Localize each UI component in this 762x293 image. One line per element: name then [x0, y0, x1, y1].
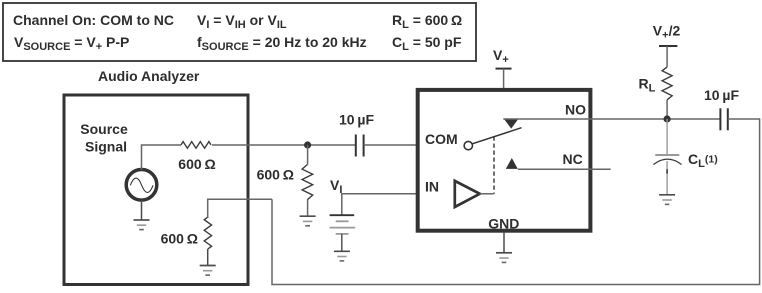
svg-text:IN: IN — [425, 179, 439, 195]
wire NC stub — [518, 168, 611, 170]
wire VI battery to IN — [342, 194, 455, 215]
wire return resistor top — [208, 199, 272, 218]
node junction output — [664, 115, 671, 122]
wire GND stem — [503, 233, 505, 253]
ground under source — [141, 200, 143, 220]
audio analyzer box — [64, 95, 248, 285]
svg-text:Source: Source — [80, 121, 128, 137]
svg-text:10 µF: 10 µF — [704, 87, 739, 103]
capacitor CL — [655, 154, 679, 156]
ground under battery — [334, 251, 350, 261]
svg-text:600 Ω: 600 Ω — [178, 156, 215, 172]
terminal V+/2 — [659, 45, 677, 47]
resistor 600 ohm shunt — [302, 165, 313, 200]
ground under CL — [659, 195, 675, 205]
switch lever — [472, 128, 521, 144]
svg-text:Signal: Signal — [85, 139, 127, 155]
wire CL to ground — [666, 161, 668, 195]
resistor 600 ohm horizontal — [181, 142, 211, 149]
dashed actuation line — [493, 137, 495, 194]
wire source to R 600 — [142, 145, 182, 170]
resistor RL — [662, 67, 672, 100]
contact NO triangle — [504, 119, 518, 129]
svg-text:COM: COM — [425, 131, 458, 147]
contact NC triangle — [506, 158, 518, 169]
wire output return loop — [272, 119, 760, 285]
svg-text:NO: NO — [565, 102, 586, 118]
wire junction down — [307, 145, 309, 165]
svg-text:GND: GND — [488, 216, 519, 232]
ground under IC — [496, 253, 512, 263]
svg-text:10 µF: 10 µF — [339, 111, 374, 127]
capacitor 10uF input — [356, 135, 364, 157]
switch pole circle — [464, 141, 472, 149]
ground under return resistor — [207, 249, 209, 266]
wire cap to COM — [364, 144, 465, 146]
svg-text:600 Ω: 600 Ω — [257, 167, 294, 183]
node junction at divider — [304, 141, 311, 148]
svg-text:Audio Analyzer: Audio Analyzer — [98, 68, 200, 84]
terminal V+ — [496, 68, 512, 70]
wire V+/2 to RL — [666, 46, 668, 67]
wire RL to node — [666, 100, 668, 119]
wire R600 to junction to cap — [212, 144, 355, 146]
battery VI — [330, 215, 356, 251]
wire V+ to box — [503, 69, 505, 88]
capacitor 10uF output — [720, 108, 727, 130]
source V1 sine generator — [126, 170, 157, 201]
wire node to CL — [666, 119, 668, 155]
resistor 600 ohm to analyzer return — [204, 217, 211, 249]
svg-text:Channel On: COM to NC: Channel On: COM to NC — [13, 12, 174, 28]
ground under shunt resistor — [300, 216, 316, 226]
switch IC box — [418, 90, 591, 231]
svg-text:NC: NC — [563, 151, 583, 167]
wire shunt resistor to ground — [307, 200, 309, 217]
svg-text:600 Ω: 600 Ω — [161, 231, 198, 247]
op-amp buffer U1 — [455, 181, 480, 207]
conditions box — [3, 3, 476, 61]
wire buffer out to dashed — [480, 193, 494, 195]
wire NO line — [503, 118, 720, 120]
